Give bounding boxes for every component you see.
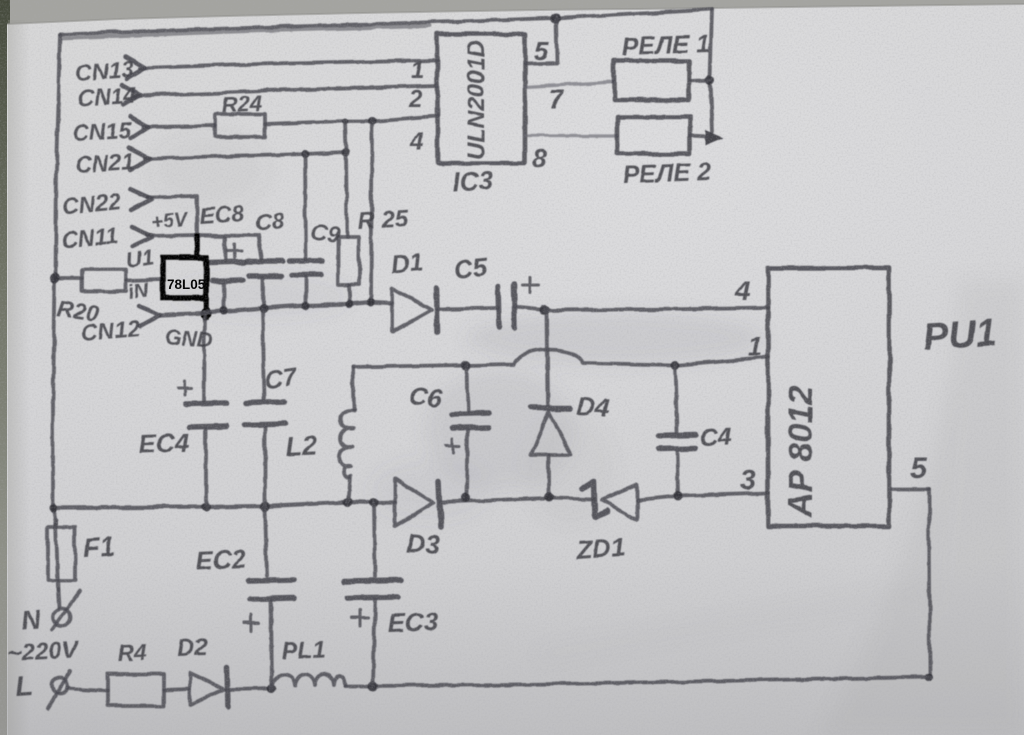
node: junction EC4 bottom [201, 503, 210, 512]
svg-text:1: 1 [411, 57, 424, 84]
svg-text:4: 4 [734, 275, 751, 306]
zener ZD1 triangle [602, 485, 637, 520]
svg-text:2: 2 [408, 86, 423, 113]
regulator U1 78L05 input lead [194, 236, 200, 258]
node: junction D4 anode [545, 493, 554, 502]
node: junction EC3 bottom [368, 681, 378, 691]
wire: CN22 to +5V corner [148, 196, 197, 235]
svg-text:D3: D3 [406, 528, 441, 560]
svg-text:8: 8 [532, 143, 547, 173]
capacitor EC4 bottom lead [204, 429, 208, 507]
inductor L2 bottom lead [348, 476, 350, 502]
node: junction R25 [342, 148, 350, 156]
wire: R25 vertical upper [345, 121, 347, 237]
capacitor C8 plates [247, 261, 283, 276]
svg-text:CN21: CN21 [75, 148, 135, 178]
wire: GND rail from CN12 [160, 302, 392, 315]
wire: relay1 right to drop [689, 80, 711, 81]
wire: D4 anode lead [547, 455, 551, 497]
wire: outer top border [60, 9, 712, 34]
wire: R20 to 78L05 input [126, 279, 163, 280]
svg-text:iN: iN [127, 279, 150, 304]
capacitor EC2 plates [249, 580, 294, 599]
resistor R20 [82, 269, 126, 291]
zener ZD1 cathode bar with tails [583, 481, 607, 517]
capacitor C4 top lead [675, 365, 677, 432]
svg-text:C7: C7 [263, 363, 300, 395]
node arrow CN13 [126, 57, 145, 79]
node arrow CN11 [132, 227, 152, 246]
diode D4 triangle [531, 412, 571, 455]
fuse F1 box [48, 527, 75, 581]
wire: pin1 from CN13 [140, 60, 437, 68]
wire: C5 to junction [515, 307, 545, 310]
wire: L to R4 [68, 688, 108, 690]
svg-text:C5: C5 [452, 252, 489, 285]
capacitor C6 polarity plus [446, 439, 460, 453]
svg-text:5: 5 [910, 452, 928, 485]
capacitor EC2 top lead [265, 506, 267, 576]
svg-text:N: N [20, 604, 43, 636]
capacitor EC2 bottom lead [271, 601, 272, 688]
node: arrow terminal relay2 right [705, 130, 724, 146]
wire: main rail to AP8012 pin4 [545, 308, 768, 310]
wire: top border double stroke [62, 26, 430, 38]
wire: rail-1 from L2 corner to AP8012 pin1 with hop over D4 lead [353, 350, 768, 367]
svg-text:GND: GND [165, 326, 213, 352]
node: corner pin5 bottom [925, 673, 933, 681]
regulator U1 78L05 black box [163, 258, 206, 298]
svg-text:РЕЛЕ 1: РЕЛЕ 1 [621, 30, 710, 61]
capacitor C9 top lead [305, 154, 306, 259]
resistor R25 [338, 237, 359, 285]
capacitor EC4 polarity plus [178, 381, 192, 395]
wire: IC3 pin8 to relay2 [525, 134, 617, 137]
svg-text:C9: C9 [309, 218, 342, 248]
relay РЕЛЕ1 box [614, 61, 689, 100]
capacitor C7 top lead from rail [262, 309, 264, 399]
node: junction x372 top [368, 117, 376, 125]
svg-text:ZD1: ZD1 [574, 532, 626, 565]
relay РЕЛЕ2 box [617, 117, 690, 154]
svg-text:R4: R4 [117, 639, 147, 666]
svg-text:U1: U1 [124, 244, 155, 273]
inductor L2 coil [340, 411, 354, 477]
svg-text:D2: D2 [176, 634, 208, 662]
wire: pin5 drop to bottom wire [929, 489, 930, 677]
svg-text:C4: C4 [699, 423, 732, 452]
terminal L tail [48, 672, 70, 708]
wire: IC3 pin7 to relay1 [525, 82, 614, 87]
svg-text:IC3: IC3 [452, 165, 495, 197]
wire: R25 to rail [349, 285, 350, 304]
capacitor EC3 top lead [374, 503, 375, 576]
wire: PL1 to EC3 junction [345, 684, 373, 688]
capacitor EC3 plates [345, 580, 400, 598]
svg-text:1: 1 [748, 331, 762, 361]
inductor L2 top lead [353, 367, 354, 410]
node: junction x372 on rail [367, 298, 375, 306]
node: junction C6 bottom [462, 494, 471, 503]
svg-text:РЕЛЕ 2: РЕЛЕ 2 [622, 158, 711, 189]
node: junction gnd lead on rail (black) [200, 308, 212, 320]
svg-text:+5V: +5V [150, 208, 190, 234]
diode D3 cathode bar [439, 480, 441, 527]
svg-text:5: 5 [534, 36, 549, 66]
capacitor C8 bottom lead [261, 278, 265, 308]
svg-text:7: 7 [549, 84, 565, 114]
wire: R24 to IC3 pin4 [265, 116, 437, 124]
svg-text:EC2: EC2 [195, 543, 248, 576]
terminal N circle [53, 608, 71, 626]
capacitor C7 bottom lead [263, 427, 267, 506]
svg-text:D4: D4 [576, 391, 611, 423]
svg-text:L: L [14, 670, 33, 702]
wire: CN15 to R24 [143, 126, 215, 127]
wire: D2 to EC2 junction [228, 688, 272, 689]
node: junction C9 on rail [302, 301, 310, 309]
diode D2 cathode bar [227, 668, 228, 707]
wire: outer left border [53, 34, 60, 527]
node: junction C4 bottom [674, 492, 683, 501]
diode D1 cathode bar [436, 288, 437, 332]
IC PU1 AP8012 box [768, 268, 889, 526]
resistor R4 [108, 674, 164, 706]
node: junction C8 C7 on rail [259, 304, 268, 313]
node: junction relay1 right [706, 76, 715, 85]
faint paper creases and smudges (decorative) [150, 130, 1024, 735]
node: junction top border / IC3 pin5 [550, 13, 560, 23]
svg-text:C8: C8 [254, 207, 286, 235]
wire: IC3 pin5 loop to top border [525, 18, 557, 64]
regulator U1 78L05 gnd lead [203, 298, 209, 318]
capacitor C9 plates [290, 261, 322, 275]
node: junction R25 top [342, 118, 348, 124]
capacitor C5 left plate [498, 286, 499, 327]
svg-text:R24: R24 [221, 91, 262, 117]
svg-text:CN11: CN11 [60, 222, 119, 253]
capacitor C7 plates [245, 402, 286, 425]
wire: D4 top lead [547, 310, 548, 404]
svg-text:L2: L2 [285, 430, 318, 462]
capacitor EC4 top lead from rail [204, 313, 205, 401]
svg-text:ULN2001D: ULN2001D [463, 40, 490, 160]
node: junction C5 D4 [540, 305, 550, 315]
svg-text:EC3: EC3 [387, 606, 439, 638]
node: junction mid rail left border [49, 504, 57, 512]
node: junction L2 bottom [344, 498, 353, 507]
capacitor C4 plates [658, 435, 695, 449]
svg-text:D1: D1 [390, 248, 424, 279]
node: junction C9 top [301, 150, 309, 158]
capacitor EC8 plates [210, 262, 244, 281]
svg-text:CN15: CN15 [72, 117, 133, 146]
node arrow CN22 [130, 189, 152, 210]
capacitor EC8 polarity plus [227, 244, 241, 258]
svg-text:4: 4 [409, 128, 423, 155]
capacitor C6 bottom lead [467, 430, 468, 497]
terminal L circle [52, 678, 68, 694]
wire: R4 to D2 [164, 689, 190, 690]
capacitor EC8 bottom lead [222, 284, 226, 311]
node: junction EC8 on rail [220, 307, 228, 315]
svg-text:R 25: R 25 [357, 205, 410, 235]
capacitor C5 right plate [514, 285, 515, 328]
wire: pin2 from CN14 [135, 86, 437, 96]
svg-text:~220V: ~220V [7, 636, 80, 667]
diode D1 triangle [392, 288, 431, 332]
diode D3 triangle [395, 478, 434, 526]
capacitor C9 bottom lead [304, 277, 308, 305]
op-amp IC3 box ULN2001D [437, 34, 525, 163]
capacitor EC4 plates [186, 403, 227, 427]
svg-text:78L05: 78L05 [167, 277, 206, 292]
fuse F1 through line [56, 520, 58, 590]
wire: CN21 to R25 top [145, 152, 346, 159]
node: junction C4 top [671, 361, 680, 370]
node: junction EC2 bottom PL1 [268, 684, 277, 693]
node: junction left border R20 [50, 273, 60, 283]
wire: D3 to ZD1 [441, 498, 594, 502]
svg-text:AP 8012: AP 8012 [782, 386, 820, 518]
wire: right drop from top border to relays [710, 9, 712, 132]
wire: vertical from pin4 junction down to main rail [371, 121, 372, 302]
resistor R24 [215, 114, 265, 137]
inductor PL1 coil [272, 674, 345, 688]
wire: bottom return wire [373, 677, 930, 686]
wire: ZD1 to AP8012 pin3 [637, 493, 768, 500]
capacitor C6 top lead [467, 365, 468, 411]
svg-text:3: 3 [740, 464, 756, 495]
wire: D1 to C5 [437, 308, 497, 309]
wire: CN11 +5V rail [148, 235, 262, 259]
capacitor EC3 polarity plus [352, 610, 368, 626]
node: junction R25 on rail [346, 300, 354, 308]
node arrow CN12 [139, 306, 160, 326]
capacitor EC2 polarity plus [243, 615, 259, 631]
svg-text:PU1: PU1 [922, 312, 999, 359]
node: junction C7 EC2 [260, 501, 270, 511]
capacitor C6 plates [451, 413, 488, 428]
diode D4 cathode bar [531, 405, 571, 411]
node: junction C6 top [461, 360, 471, 370]
wire: mid rail from left border to D3 [53, 502, 395, 508]
svg-text:C6: C6 [407, 380, 444, 413]
node arrow CN14 [122, 85, 140, 105]
capacitor EC3 bottom lead [373, 600, 375, 686]
capacitor C4 bottom lead [677, 452, 678, 495]
terminal N tail [52, 591, 80, 630]
svg-text:PL1: PL1 [281, 636, 326, 665]
wire: F1 to N terminal [58, 590, 59, 607]
node: junction EC3 top [369, 498, 379, 508]
svg-text:F1: F1 [82, 531, 116, 563]
diode D2 triangle [190, 673, 224, 705]
svg-text:EC8: EC8 [199, 200, 246, 229]
wire: relay2 right to arrow [690, 136, 708, 137]
svg-text:EC4: EC4 [138, 427, 190, 459]
wire: AP8012 pin5 stub [892, 487, 929, 491]
capacitor EC8 top lead [223, 237, 227, 261]
node arrow CN15 [130, 117, 148, 138]
node arrow CN21 [129, 148, 150, 170]
wire: R20 from left border [55, 276, 82, 280]
capacitor C5 polarity plus [522, 277, 538, 293]
